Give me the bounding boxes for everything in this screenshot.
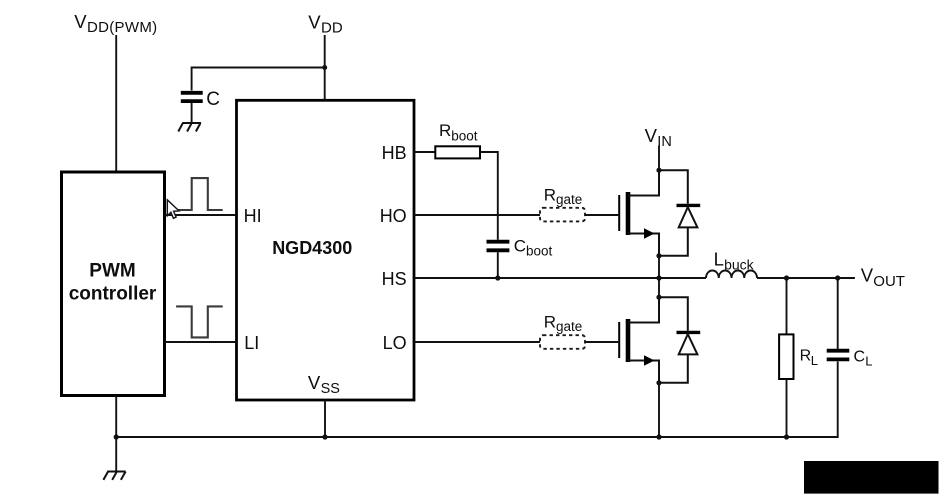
label CL: [854, 348, 873, 368]
svg-text:V: V: [308, 12, 321, 33]
svg-text:L: L: [865, 353, 872, 368]
svg-text:V: V: [645, 125, 658, 146]
resistor RL: [779, 334, 793, 379]
svg-text:gate: gate: [556, 192, 582, 207]
capacitor Cboot: [487, 242, 510, 251]
svg-text:NGD4300: NGD4300: [272, 238, 352, 258]
wire VDD to capacitor C: [192, 68, 325, 91]
svg-text:R: R: [544, 186, 556, 205]
label Rgate (high side): [544, 186, 583, 207]
svg-text:DD(PWM): DD(PWM): [87, 19, 157, 36]
wire VIN stem: [658, 146, 660, 171]
svg-text:L: L: [811, 353, 818, 368]
inductor Lbuck: [706, 271, 757, 278]
redaction block: [804, 461, 939, 494]
node RL top junction: [784, 275, 789, 280]
svg-text:C: C: [854, 348, 866, 365]
wire VSS stem: [324, 400, 326, 437]
wire main ground stem: [115, 437, 117, 472]
label Lbuck: [714, 248, 755, 272]
mouse cursor: [167, 200, 179, 219]
transistor Q2 (low-side MOSFET): [619, 297, 659, 383]
node ground rail / PWM: [114, 434, 119, 439]
wire Q2 source to ground rail: [658, 383, 660, 437]
op IC NGD4300 box: [237, 100, 415, 400]
net label VDD(PWM): [74, 11, 157, 36]
wire HB to Rboot: [414, 151, 435, 153]
wire capacitor C to ground: [191, 103, 193, 123]
wire Rboot to Cboot: [480, 152, 498, 240]
svg-text:C: C: [206, 89, 220, 110]
label Rgate (low side): [544, 313, 583, 334]
wire Rgate to Q2 gate: [585, 341, 618, 343]
wire Rgate to Q1 gate: [585, 214, 618, 216]
node CL top junction: [835, 275, 840, 280]
svg-text:OUT: OUT: [873, 273, 905, 290]
wire Lbuck to VOUT: [757, 277, 855, 279]
wire LI: [165, 341, 237, 343]
node ground rail / VSS: [322, 434, 327, 439]
resistor Rboot: [435, 146, 480, 158]
node Q1 drain: [656, 168, 661, 173]
node Q2 source: [656, 380, 661, 385]
node VDD junction: [322, 65, 327, 70]
wire HI: [165, 214, 237, 216]
waveform high pulse (HI input): [178, 178, 223, 210]
svg-text:controller: controller: [69, 284, 157, 305]
label RL: [800, 348, 818, 369]
wire RL to ground rail: [786, 379, 788, 437]
wire PWM controller to ground rail: [115, 396, 117, 438]
transistor Q1 (high-side MOSFET): [619, 170, 659, 256]
svg-text:L: L: [714, 248, 724, 269]
svg-text:DD: DD: [321, 20, 343, 37]
svg-text:LI: LI: [244, 333, 259, 353]
svg-text:HO: HO: [380, 206, 407, 226]
node Q1 source: [656, 253, 661, 258]
svg-text:R: R: [800, 348, 812, 365]
pin VSS: [308, 372, 340, 397]
node ground rail / RL: [784, 434, 789, 439]
ground (main): [103, 472, 125, 480]
node Q2 drain: [656, 295, 661, 300]
svg-text:buck: buck: [724, 256, 755, 272]
node Cboot/HS junction: [495, 275, 500, 280]
svg-text:LO: LO: [383, 333, 407, 353]
svg-text:R: R: [544, 313, 556, 332]
wire HS rail: [414, 277, 706, 279]
svg-text:HS: HS: [382, 269, 407, 289]
waveform low pulse (LI input): [176, 306, 223, 337]
net label VDD: [308, 12, 343, 37]
capacitor C: [181, 93, 203, 101]
node ground rail / Q2: [656, 434, 661, 439]
net label VOUT: [861, 265, 905, 291]
wire HO to Rgate: [414, 214, 540, 216]
capacitor CL: [827, 351, 850, 360]
label Rboot: [439, 121, 478, 143]
wire Q1 source to HS rail: [658, 256, 660, 278]
wire HS rail to CL: [837, 278, 839, 349]
svg-text:SS: SS: [321, 381, 340, 397]
resistor Rgate (high side, dashed): [540, 208, 585, 222]
net label VIN: [645, 125, 672, 150]
svg-text:boot: boot: [526, 243, 553, 258]
wire Cboot to HS rail: [497, 252, 499, 278]
svg-text:V: V: [308, 372, 321, 393]
svg-text:HB: HB: [382, 143, 407, 163]
svg-text:HI: HI: [244, 206, 262, 226]
svg-text:R: R: [439, 121, 451, 140]
svg-text:C: C: [514, 237, 526, 256]
PWM controller box: [62, 172, 165, 396]
wire VDD(PWM) to PWM controller: [115, 35, 117, 172]
wire HS rail to RL: [786, 278, 788, 334]
diode D2 (body diode, low side): [659, 297, 700, 383]
svg-text:V: V: [861, 265, 874, 286]
diode D1 (body diode, high side): [659, 170, 700, 256]
svg-text:V: V: [74, 11, 87, 32]
svg-text:PWM: PWM: [89, 261, 135, 282]
svg-text:boot: boot: [451, 128, 478, 143]
resistor Rgate (low side, dashed): [540, 335, 585, 349]
node HS/FET junction: [656, 275, 661, 280]
wire HS rail to Q2 drain: [658, 278, 660, 297]
wire ground rail: [116, 362, 838, 438]
wire LO to Rgate (low side): [414, 341, 540, 343]
ground (under C): [178, 123, 201, 132]
wire VDD into NGD4300: [324, 35, 326, 100]
svg-text:gate: gate: [556, 319, 582, 334]
label Cboot: [514, 237, 553, 259]
